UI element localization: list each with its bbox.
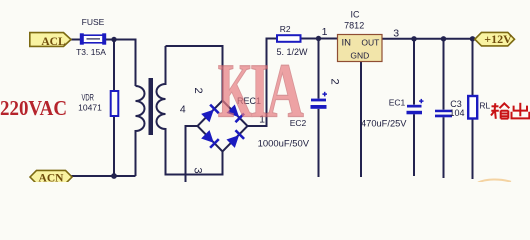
svg-text:RL: RL [479,101,490,111]
svg-text:A: A [266,49,304,134]
svg-text:7812: 7812 [344,21,364,31]
svg-text:1000uF/50V: 1000uF/50V [258,139,310,149]
svg-text:+12V: +12V [484,32,512,46]
svg-text:1: 1 [322,26,328,38]
svg-text:ACN: ACN [39,173,65,182]
svg-text:10471: 10471 [78,103,102,113]
svg-text:3: 3 [393,27,399,39]
svg-text:470uF/25V: 470uF/25V [361,119,407,129]
svg-text:104: 104 [449,108,464,118]
svg-text:EC1: EC1 [389,98,406,108]
svg-text:FUSE: FUSE [82,17,105,27]
svg-text:GND: GND [350,51,369,61]
svg-text:2: 2 [192,88,204,94]
svg-text:IC: IC [351,10,361,20]
svg-text:220VAC: 220VAC [0,96,67,120]
svg-text:T3. 15A: T3. 15A [76,47,106,57]
svg-text:R2: R2 [280,24,291,34]
svg-text:2: 2 [329,79,341,85]
svg-text:VDR: VDR [81,93,94,103]
svg-text:3: 3 [192,168,204,174]
svg-text:4: 4 [180,104,186,116]
svg-text:ACL: ACL [41,36,66,48]
svg-text:IN: IN [342,38,352,49]
svg-text:OUT: OUT [361,38,379,48]
svg-text:K: K [218,48,253,133]
